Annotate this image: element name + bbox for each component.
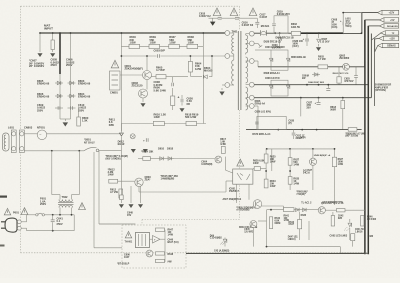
label T601 [232, 30, 239, 34]
pin T601 s4 [246, 82, 255, 87]
LED D640 [344, 219, 352, 232]
label D604c [300, 137, 306, 140]
label D603 [78, 79, 91, 86]
wire row y123 [121, 123, 206, 125]
wire loop bot l [52, 194, 60, 196]
label TLAC1 [301, 201, 312, 204]
connector CN601 [110, 71, 121, 90]
label R659v [289, 221, 295, 226]
label Q603 [145, 176, 152, 182]
capacitor C662 [354, 67, 358, 85]
wire q side [253, 221, 309, 247]
label R635 [293, 178, 299, 186]
label F601 [40, 197, 47, 206]
label C610 [78, 103, 87, 112]
label R643b [270, 180, 276, 188]
label C608c [265, 77, 280, 80]
wire opto down a [236, 184, 238, 203]
resistor R643b [264, 170, 268, 188]
dashed border right drop [239, 6, 241, 30]
label D610 D618 [158, 148, 174, 151]
label D604b [204, 66, 213, 73]
wire loop2 bottom [27, 230, 75, 232]
wire rail4 [254, 97, 371, 99]
bus right outer [364, 20, 366, 254]
flag +12Vb [375, 36, 399, 40]
resistor R603 [318, 65, 328, 69]
wire rail4 vert [300, 98, 302, 117]
label subwoofer [375, 84, 392, 92]
resistor R656 [348, 128, 357, 132]
snubber rect 3 [255, 116, 286, 129]
flag TP [371, 31, 398, 40]
resistor R620h [253, 167, 266, 171]
resistor R605 [152, 75, 189, 79]
transistor Q604 [215, 156, 222, 163]
wire bot rail2 [308, 209, 318, 211]
wire loop2 top [27, 214, 75, 216]
opamp ctl [153, 236, 161, 244]
wire R601 top [52, 32, 54, 40]
wire rail1 c [301, 32, 362, 34]
wire q607 c [312, 149, 314, 190]
capacitor C629 [315, 98, 321, 105]
label R608b [291, 57, 306, 59]
transistor Q643 [318, 207, 325, 214]
label C606 [66, 58, 75, 68]
label R639 [150, 35, 157, 44]
capacitor C631 [292, 130, 296, 139]
wire under [94, 247, 122, 249]
wire reg misc [225, 150, 232, 173]
wire bridge bottom [60, 119, 71, 121]
arrow x121 end [119, 124, 123, 137]
ground stub s2 [254, 43, 262, 47]
snubber C619 loop [272, 16, 288, 33]
scan mark left edge 2 [0, 245, 5, 247]
label MAT INPUT [44, 23, 53, 30]
diode D636a [294, 208, 301, 212]
ground snubber [211, 18, 215, 25]
IC602 box [135, 233, 149, 248]
wire rail2 b [328, 66, 365, 68]
label C603 [154, 49, 166, 53]
label R615 [161, 175, 179, 181]
wire nt601 out [47, 133, 122, 135]
wire plug top [21, 215, 26, 222]
label R627 [293, 159, 299, 167]
warning triangle s1 [213, 8, 221, 16]
wire bottom long [186, 252, 365, 254]
label D670 [252, 133, 271, 136]
resistor R625 [264, 149, 268, 171]
fuse F601 [36, 213, 45, 216]
zener D607 [317, 32, 321, 46]
label CN601 [110, 91, 118, 94]
transistor Q607 [309, 158, 316, 165]
label L601 [8, 126, 15, 130]
resistor R660 vert [77, 108, 81, 126]
diode loop A [255, 50, 290, 70]
ground Q602 [141, 98, 145, 107]
resistor R614 [138, 157, 157, 161]
lamp D612 [130, 134, 135, 139]
diode D607b [312, 73, 320, 77]
transformer T602 core [58, 203, 74, 205]
label R641h [284, 214, 290, 222]
label R660 [82, 116, 89, 123]
resistor R640 [129, 44, 140, 48]
warning triangle plug [4, 208, 19, 214]
ground T601 [220, 85, 225, 95]
inductor L601 [3, 133, 10, 151]
wire T602 pin br [71, 208, 73, 215]
flag +12V [378, 10, 399, 15]
label R656 [345, 132, 365, 137]
plug P601 [1, 218, 17, 232]
resistor R609 vert [171, 88, 175, 110]
capacitor C626 elec [178, 95, 183, 106]
label D640 [330, 236, 348, 238]
wire rail1 a [254, 32, 260, 34]
wire mains top [40, 32, 225, 34]
label R640b [275, 217, 281, 225]
wire loop left [51, 151, 53, 195]
wire rail5 [246, 129, 362, 131]
label D649b [239, 226, 258, 229]
resistor R604 vert [188, 55, 192, 77]
capacitor C610 [68, 106, 76, 110]
wire reg top [266, 148, 335, 150]
pin T601 p3 [225, 83, 230, 88]
resistor R641h [284, 208, 295, 212]
label IC602 name [117, 262, 130, 265]
label D607 [322, 38, 330, 44]
bus right inner [367, 26, 369, 254]
transistor Q602 [139, 89, 148, 98]
label C618 [199, 13, 211, 19]
label C616 [242, 21, 254, 27]
flag DEMAG [375, 43, 399, 52]
label R612 [110, 189, 118, 195]
wire Q601-Q602 [143, 80, 147, 90]
diode D628 branch [278, 33, 282, 48]
transformer T602 primary [59, 200, 73, 202]
label R617 [220, 138, 226, 146]
resistor R635 [288, 170, 292, 190]
label D607b [302, 76, 309, 80]
label D628 [276, 36, 294, 39]
label D641b [214, 250, 230, 253]
capacitor C611 [172, 77, 174, 87]
warning triangle primary [111, 60, 119, 68]
resistor R627 [288, 149, 292, 171]
wire Q601 gate [120, 74, 143, 76]
label C604 [201, 161, 212, 167]
wire bus y56 [121, 55, 225, 57]
ground D607 [317, 48, 321, 51]
wire chain drop left [121, 32, 123, 46]
label C641b [355, 228, 364, 233]
wire reg vert [271, 149, 273, 171]
wire q603 to opto [160, 181, 233, 192]
pin T601 s3 [246, 59, 255, 64]
label R620 [253, 160, 265, 166]
wire loop bot r [72, 194, 80, 196]
wire flag2 stub [365, 19, 380, 21]
resistor Rc4 [156, 259, 165, 262]
label T602b [108, 168, 116, 176]
secondary winding 3 [246, 87, 248, 110]
label S601 [84, 139, 95, 145]
label R611 [109, 118, 116, 127]
label D640b [210, 234, 222, 239]
label block R613 [106, 155, 128, 161]
label C625 [348, 21, 358, 29]
label C626 [187, 97, 194, 106]
wire rail1 b [267, 32, 292, 34]
label D608 [264, 72, 281, 75]
wire bridge right [70, 32, 72, 119]
label C608b [331, 19, 337, 30]
wire rail1 rise [361, 13, 363, 34]
wire chain rise right [202, 32, 204, 123]
connector CN603 col1 [11, 130, 16, 153]
label R605 [156, 66, 165, 73]
capacitor C617 [255, 18, 259, 28]
label R643v [288, 236, 299, 241]
resistor R643v [331, 212, 334, 226]
arrow drop a [119, 205, 123, 208]
connector CN603 col2 [19, 130, 24, 153]
label Q602b [339, 55, 350, 61]
label C632 [303, 170, 313, 174]
label MCA01 [261, 25, 270, 28]
dashed border left [20, 6, 22, 253]
label D604 [78, 92, 91, 99]
label Q644 [223, 198, 242, 201]
label R637 [169, 35, 176, 44]
wire loop2 right [73, 215, 75, 231]
wire T602 pin bl [59, 208, 61, 215]
core T601 [238, 31, 241, 110]
resistor R659v [298, 212, 302, 240]
capacitor C618 [218, 16, 222, 20]
diode D604b [191, 75, 212, 79]
warning triangle fuse [21, 208, 28, 215]
warning triangle s2 [230, 8, 238, 16]
wire flag3 stub [368, 25, 380, 27]
wire bot drop [339, 247, 341, 254]
wire drop C602 [39, 32, 41, 52]
arrow D612a [131, 149, 135, 152]
label U638 [322, 202, 343, 204]
ground bridge [63, 123, 67, 126]
resistor R661 [337, 67, 341, 85]
wire snubber [209, 17, 258, 19]
arrow drop b [129, 205, 133, 208]
label Q605 [124, 254, 130, 260]
arrow D612b [143, 149, 147, 152]
wire bridge left [59, 74, 61, 119]
label R657 [338, 159, 344, 166]
label C620b [265, 46, 285, 49]
label R640 [130, 35, 137, 44]
wire bridge left thick [59, 32, 61, 74]
choke box L601b [342, 12, 362, 34]
diode D636b [301, 208, 309, 212]
resistor R638 [187, 44, 198, 48]
resistor Rc1 [156, 228, 165, 232]
dashed isolation drop [141, 220, 143, 226]
capacitor C625 [340, 18, 345, 29]
diode D610 [157, 157, 166, 161]
label Q601 [125, 64, 143, 71]
label R661 [333, 73, 350, 75]
label R625 [270, 155, 276, 163]
label R603 [318, 55, 326, 61]
transistor Q606 [250, 221, 257, 228]
label R638 [188, 35, 195, 44]
label R602 [291, 23, 301, 29]
capacitor C616 [235, 16, 239, 20]
dashed isolation horiz [142, 219, 240, 221]
transistor Q602b [343, 63, 350, 70]
warning triangle s3 [249, 8, 257, 16]
label R642h [338, 215, 344, 220]
label C641 [57, 217, 64, 226]
resistor R642h [325, 209, 365, 212]
wire standby feed a [93, 152, 95, 248]
wire into box [99, 223, 135, 225]
wire loop right [78, 151, 80, 195]
label Q606 [244, 228, 254, 233]
optocoupler IC601 [233, 169, 253, 184]
LED D641 [220, 238, 227, 247]
label NT601 [37, 126, 45, 130]
label C627 [306, 102, 312, 110]
dashed isolation line [239, 110, 241, 220]
label Rc1 [168, 229, 174, 237]
capacitor C603 [157, 54, 161, 58]
resistor R639 [149, 44, 160, 48]
pin T601 p2 [225, 54, 230, 59]
resistor R637 [169, 44, 180, 48]
dashed border bottom [21, 252, 368, 254]
label C608 R606 [154, 80, 167, 92]
label R663 [296, 192, 307, 196]
label R604 [195, 62, 202, 71]
label C605 [51, 58, 60, 68]
label C626c [255, 111, 272, 114]
wire centre mid [211, 55, 213, 77]
wire flag5 drop [374, 38, 376, 106]
pin T601 s6 [246, 104, 255, 109]
label D436 [368, 235, 374, 238]
wire drop a [120, 137, 124, 204]
transistor Q644 [253, 200, 262, 209]
wire T602 pin tl [59, 195, 61, 200]
dashed border top [21, 5, 240, 7]
label C602 [29, 59, 44, 69]
primary winding lower [230, 56, 234, 85]
wire plug bottom [21, 228, 26, 231]
label R614 [141, 151, 153, 154]
wire bot rail [258, 206, 284, 229]
wire flag1 feed [344, 12, 379, 14]
label Q602 [132, 81, 143, 88]
label CN603 [24, 126, 33, 130]
transistor Q605 [146, 250, 153, 257]
capacitor C609 [55, 106, 63, 110]
wire box internals [150, 230, 166, 262]
resistor R619 [186, 121, 197, 125]
warning triangle T602 [79, 203, 86, 210]
label C609 [37, 103, 46, 112]
wire T602 pin tr [71, 195, 73, 200]
label D648c [308, 81, 325, 84]
flag DEGAUSS [380, 24, 399, 29]
wire left vert long [121, 46, 123, 131]
resistor R612h [109, 179, 118, 183]
pin T601 s2 [246, 41, 255, 46]
label C648 [127, 212, 133, 218]
transistor Q603 [135, 178, 143, 186]
wire rail3 rise [367, 26, 369, 85]
label D612 [118, 139, 125, 146]
label R616 [154, 113, 167, 120]
resistor R617v [221, 146, 225, 153]
wire d618 to q604 [174, 158, 215, 160]
transformer T602 secondary [59, 205, 73, 207]
bead MCA01 [261, 30, 267, 36]
label D636 [301, 215, 307, 217]
wire drop c [140, 186, 142, 203]
label C620 [272, 44, 281, 50]
resistor R618b [341, 98, 345, 130]
label R618b [330, 106, 336, 112]
secondary winding 2 [246, 57, 248, 83]
pin T601 s5 [246, 95, 255, 100]
wire rail2 [254, 61, 318, 67]
resistor R616 [153, 121, 164, 125]
flag +5V [380, 18, 399, 23]
diode D605 [55, 81, 63, 85]
wire q603 [118, 181, 160, 192]
warning triangle ctl [125, 231, 133, 243]
wire R601 bot [52, 50, 54, 53]
resistor R647b [351, 234, 355, 241]
label T602 [62, 195, 69, 199]
resistor R657 [332, 148, 336, 205]
label C617 [260, 14, 268, 20]
wire Q601 drain [146, 55, 148, 70]
capacitor C626b [303, 32, 310, 46]
diode D604 [68, 94, 76, 98]
label Q607 [314, 154, 331, 157]
resistor R611v [119, 189, 123, 198]
label C630 [288, 120, 294, 126]
label D605b [236, 207, 258, 211]
wire rail5 feed [254, 106, 258, 130]
label C633 [296, 135, 306, 139]
warning triangle reg [237, 159, 244, 166]
wire ac lower [24, 150, 84, 152]
lamp NT601 [24, 130, 47, 140]
wire opto down b [248, 184, 250, 200]
wire drop b [130, 186, 132, 203]
label Rc4 [168, 261, 173, 264]
